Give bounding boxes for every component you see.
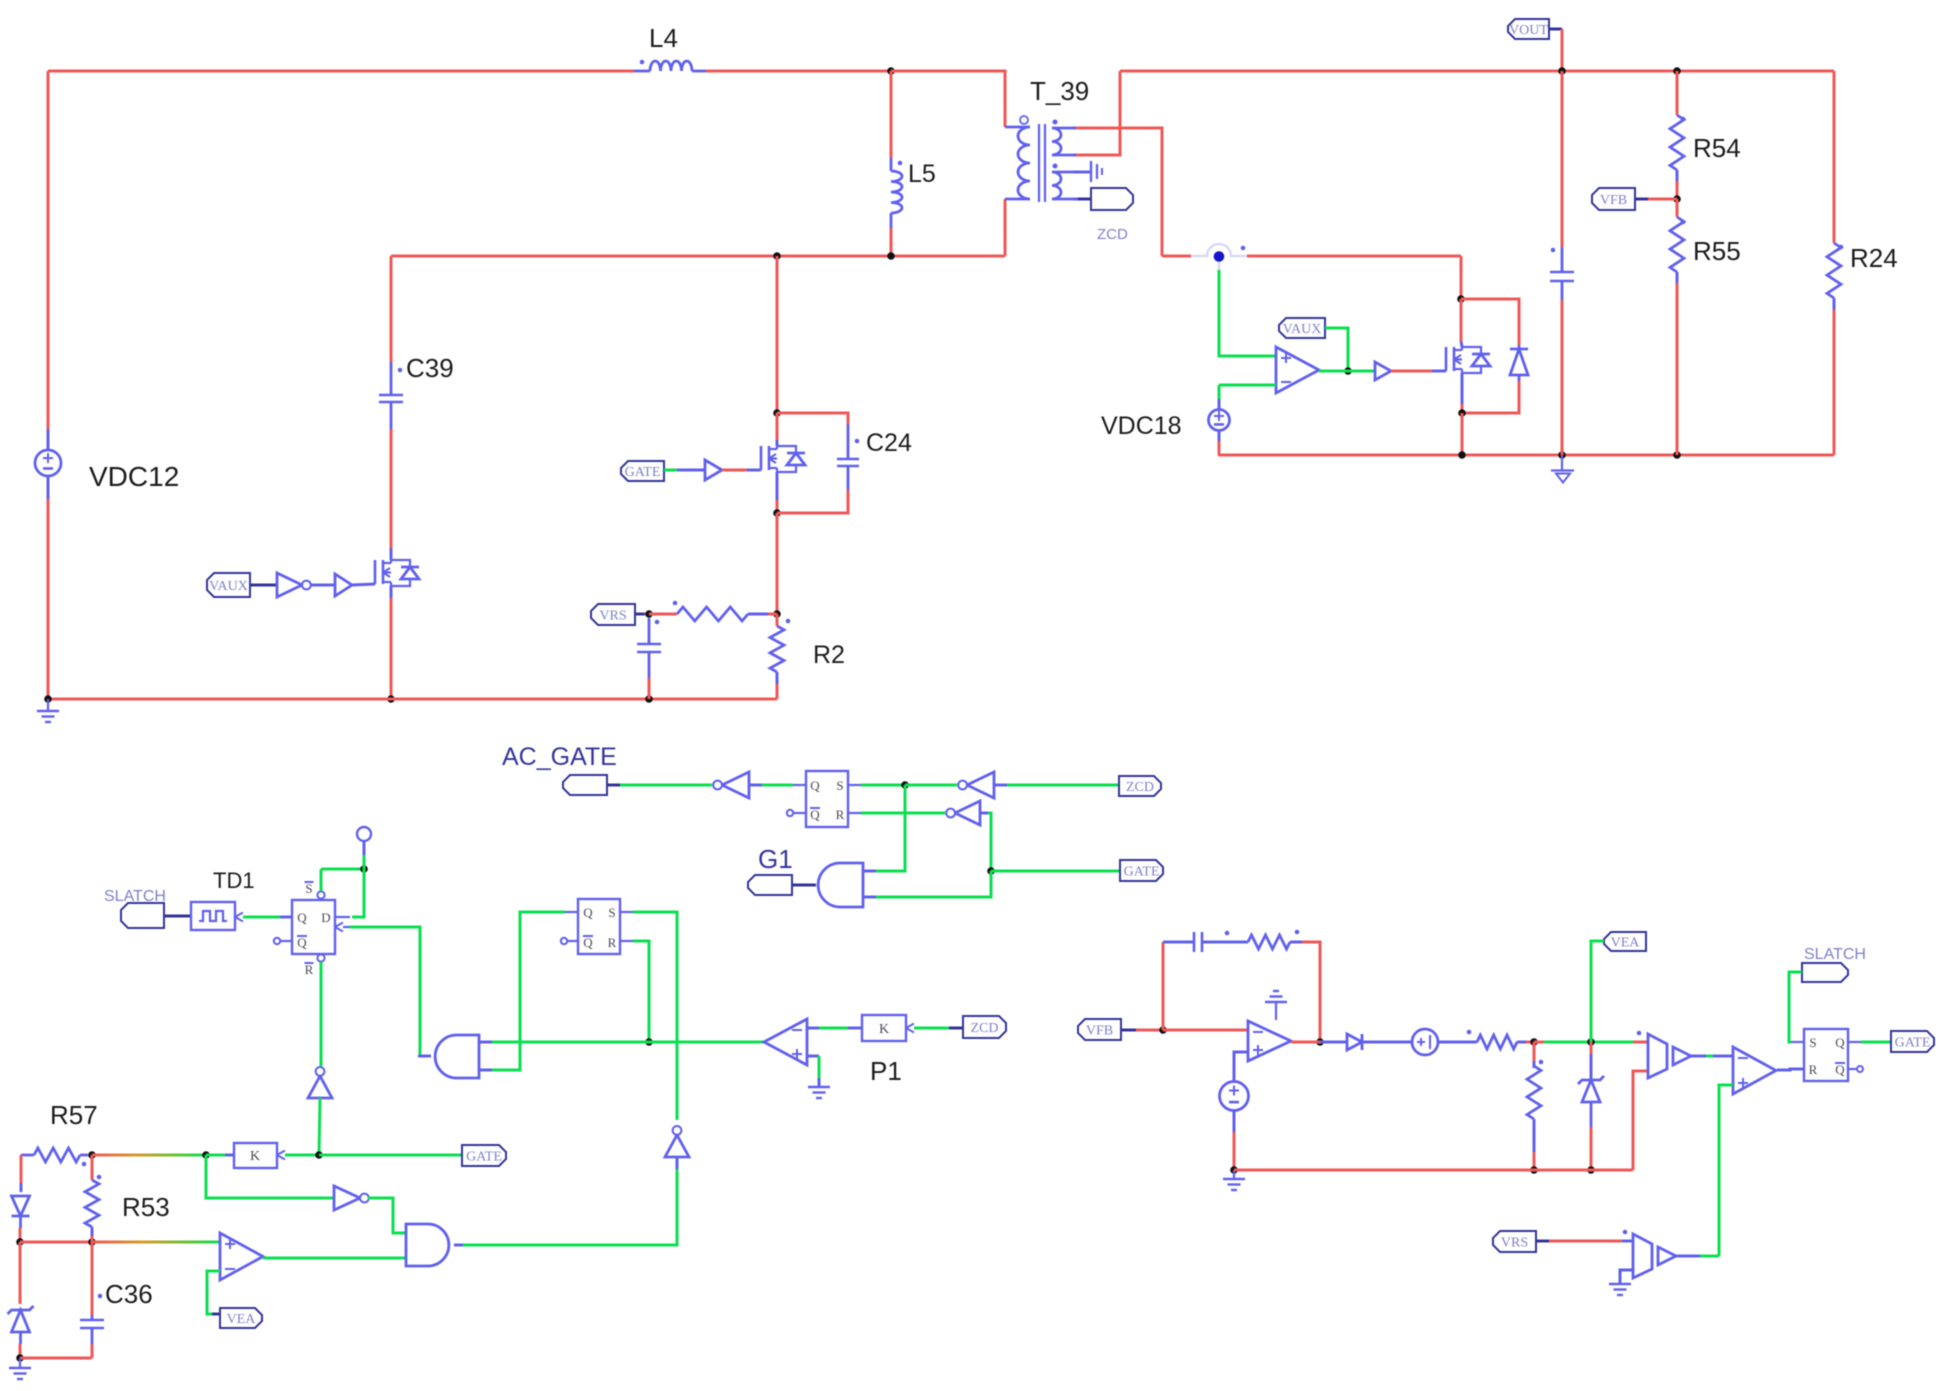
svg-text:R: R: [1809, 1062, 1818, 1077]
resistor R_ramp: [1467, 1030, 1517, 1049]
wire and1 top stub: [863, 870, 876, 873]
svg-text:GATE: GATE: [466, 1150, 502, 1165]
wire vfb red: [1136, 1029, 1163, 1032]
label P1: [870, 1056, 902, 1086]
wire fb right red: [1302, 942, 1320, 1042]
wire vref bot blue: [1233, 1110, 1236, 1132]
wire S down to and: [876, 785, 905, 871]
wire r53 bot: [91, 1236, 94, 1242]
wire R green: [861, 812, 945, 815]
wire d1 bottom: [19, 1228, 22, 1242]
wire top bus left: [48, 70, 634, 73]
junction R57 right: [88, 1151, 96, 1159]
wire vrs out blue: [1676, 1255, 1700, 1258]
wire vref bot red: [1233, 1132, 1236, 1170]
net label VOUT: [1508, 19, 1549, 39]
wire Q3 drain stub: [1461, 341, 1462, 347]
wire ea to diode: [1320, 1041, 1347, 1044]
inverter U_INV_UP2: [665, 1126, 689, 1157]
ground EA top: [1265, 991, 1287, 1020]
junction mid bus M2: [773, 252, 781, 260]
svg-text:VAUX: VAUX: [209, 579, 248, 594]
gain block K1: [862, 1015, 914, 1041]
svg-text:R57: R57: [50, 1100, 98, 1130]
wire pwm out green: [1706, 1055, 1713, 1058]
wire sec1 bottom: [1073, 154, 1076, 157]
wire c_rc bottom: [648, 678, 651, 699]
label L4: [649, 23, 678, 53]
resistor R2: [770, 619, 790, 672]
wire z2 bot: [1590, 1127, 1593, 1170]
net label VAUX right: [1279, 318, 1325, 338]
svg-text:C36: C36: [105, 1279, 153, 1309]
junction vrs rc: [645, 610, 653, 618]
wire c36 bot: [91, 1344, 94, 1358]
zener D6: [1578, 1076, 1604, 1127]
wire res stub: [1517, 1041, 1526, 1044]
comparator U_VRS: [1633, 1234, 1652, 1278]
wire inv5 out: [368, 1198, 406, 1233]
label VDC18: [1101, 412, 1182, 440]
wire a3 out stub: [418, 1055, 431, 1058]
junction rsh gnd: [1530, 1166, 1538, 1174]
svg-text:VAUX: VAUX: [1283, 322, 1322, 337]
wire R24 to bus: [1833, 310, 1836, 455]
wire inv ac in: [749, 784, 762, 787]
wire p1 minus stub: [807, 1027, 819, 1030]
wire ea plus: [1234, 1052, 1248, 1081]
wire vrs stub: [635, 613, 645, 616]
wire diode D2 bottom: [1462, 381, 1519, 413]
wire cmp2 plus green: [1719, 1085, 1733, 1256]
wire gate down to and: [876, 871, 991, 897]
wire Cout bottom: [1561, 300, 1564, 455]
junction p1 line: [645, 1038, 653, 1046]
junction S node: [901, 781, 909, 789]
wire ea out: [1291, 1041, 1320, 1044]
ground VRS comp: [1609, 1284, 1631, 1295]
wire k1 navy: [949, 1027, 963, 1030]
wire lr bus: [1234, 1169, 1633, 1172]
wire top bus right: [1120, 70, 1834, 73]
net label G1 capsule: [748, 875, 792, 895]
wire vrs red2: [1549, 1240, 1622, 1243]
net label VFB top: [1592, 188, 1635, 210]
junction ramp node: [1530, 1038, 1538, 1046]
wire vdc18 to bus: [1218, 441, 1221, 455]
wire r57 left red: [20, 1155, 23, 1183]
transistor M2 (main switch): [761, 446, 805, 472]
svg-text:R: R: [608, 935, 617, 950]
wire to ZCD label: [1078, 198, 1091, 201]
wire k2 down: [206, 1155, 334, 1198]
ground output: [1551, 455, 1574, 483]
wire ramp to vea b: [1544, 1041, 1633, 1044]
label R55: [1693, 236, 1741, 266]
wire ff1 clk green: [350, 927, 420, 1056]
net label SLATCH left capsule: [121, 903, 164, 928]
svg-text:P1: P1: [870, 1056, 902, 1086]
svg-text:VDC18: VDC18: [1101, 412, 1182, 440]
wire and1 bot stub: [863, 896, 876, 899]
wire R2 bottom stub: [776, 672, 779, 684]
wire k2 in green: [285, 1154, 319, 1157]
wire p1 plus blue: [818, 1078, 821, 1087]
wire vea to comp: [1633, 1041, 1648, 1044]
label L5: [908, 160, 936, 188]
wire a3 top stub: [479, 1041, 492, 1044]
label R2: [813, 641, 845, 669]
wire M2 source stub: [776, 472, 779, 500]
wire c36 top: [91, 1242, 94, 1315]
wire ramp to vea a: [1534, 1041, 1544, 1044]
net label ZCD p1: [963, 1016, 1006, 1038]
wire a3 bot stub: [479, 1069, 492, 1072]
wire rsh bot red: [1533, 1152, 1536, 1170]
net label VEA top: [1604, 932, 1646, 951]
wire C24 top: [777, 413, 848, 424]
capacitor Cout: [1550, 247, 1574, 300]
wire rc res right red: [768, 613, 777, 616]
wire a4 out stub: [454, 1244, 463, 1247]
capacitor C24: [837, 424, 859, 490]
junction Q3 source: [1458, 409, 1466, 417]
wire ff1 D green: [352, 869, 364, 917]
wire vdc18 corner: [1218, 454, 1219, 457]
junction vout bus: [1558, 67, 1566, 75]
label C36: [105, 1279, 153, 1309]
wire z2 top red: [1590, 1042, 1593, 1054]
wire gate label green: [991, 870, 1120, 873]
wire diode D2 top: [1461, 299, 1519, 345]
wire slatch to td: [164, 915, 191, 918]
wire C39 top: [390, 256, 393, 362]
svg-text:GATE: GATE: [1895, 1036, 1931, 1051]
svg-text:R53: R53: [122, 1192, 170, 1222]
wire r53 bot stub: [91, 1227, 94, 1236]
wire vfb stub: [1121, 1029, 1136, 1032]
junction VAUX out: [1344, 367, 1352, 375]
wire k2 out blue: [225, 1154, 234, 1157]
wire M2 drain stub: [776, 440, 779, 446]
wire ff2 s green: [633, 912, 677, 1120]
wire M1 source: [390, 598, 393, 699]
wire ff1 rbar green: [320, 962, 323, 1066]
voltage source VDC12: [35, 450, 61, 476]
net label GATE mid: [1120, 860, 1163, 881]
svg-text:VRS: VRS: [599, 609, 626, 624]
wire R55 top: [1676, 199, 1679, 217]
wire p1 plus stub: [807, 1055, 819, 1058]
wire R54 bottom stub: [1676, 170, 1679, 181]
op-amp U_CMP1: [220, 1233, 263, 1280]
wire fb up: [1162, 942, 1165, 1030]
marker vrs comp: [1623, 1230, 1628, 1235]
op-amp U_VAUX: [1276, 347, 1319, 393]
svg-text:Q: Q: [583, 905, 593, 920]
wire vaux to inv: [250, 584, 277, 587]
svg-text:Q: Q: [583, 935, 593, 950]
wire p1 long line: [492, 1041, 764, 1044]
wire sense green: [1219, 270, 1276, 356]
resistor R55: [1670, 217, 1685, 272]
buffer U_B2: [335, 574, 352, 596]
wire sec side bus a: [1162, 255, 1191, 258]
wire invup2 green: [676, 1157, 679, 1169]
wire mid link: [20, 1241, 92, 1244]
svg-text:C24: C24: [866, 429, 912, 457]
wire vout down: [1561, 29, 1564, 71]
resistor R_fb: [1248, 930, 1299, 949]
wire cmp minus navy: [212, 1313, 220, 1316]
junction bottom bus M1: [387, 695, 395, 703]
svg-text:VOUT: VOUT: [1509, 23, 1548, 38]
label T_39: [1030, 76, 1089, 106]
wire S green: [861, 784, 905, 787]
junction M2 drain: [773, 409, 781, 417]
wire rsh bot blue: [1533, 1119, 1536, 1152]
svg-text:ZCD: ZCD: [1097, 226, 1128, 243]
net label ZCD transformer: [1091, 188, 1133, 210]
wire Cout top: [1561, 71, 1564, 247]
svg-text:R24: R24: [1850, 243, 1898, 273]
label R53: [122, 1192, 170, 1222]
wire k2 out green: [206, 1154, 225, 1157]
wire buf to M1 gate: [352, 584, 375, 585]
net label GATE low: [462, 1145, 506, 1166]
node hop arc: [1191, 244, 1247, 270]
junction VFB node: [1673, 195, 1681, 203]
inductor L5: [891, 158, 902, 228]
junction ff1 top: [360, 865, 368, 873]
ground lowleft: [9, 1358, 31, 1379]
junction vref gnd: [1230, 1166, 1238, 1174]
wire top bus to primary: [891, 71, 1005, 127]
wire Q3 drain: [1460, 299, 1463, 341]
wire gate green: [664, 469, 677, 472]
wire inv4 green: [988, 813, 991, 871]
svg-text:T_39: T_39: [1030, 76, 1089, 106]
wire R24 top: [1833, 71, 1836, 243]
wire VFB stub: [1635, 198, 1648, 201]
wire ff2 q green: [492, 912, 565, 1070]
svg-text:Q: Q: [297, 910, 307, 925]
svg-text:ZCD: ZCD: [1126, 780, 1154, 795]
comparator U_CMP2: [1733, 1047, 1776, 1094]
wire td input blue: [280, 916, 292, 919]
inductor L4: [634, 60, 706, 71]
svg-text:R2: R2: [813, 641, 845, 669]
comparator U_PWM: [1637, 1031, 1667, 1078]
svg-text:VEA: VEA: [227, 1312, 257, 1327]
wire isrc to res: [1438, 1041, 1477, 1044]
svg-text:VFB: VFB: [1600, 193, 1627, 208]
wire buf red: [722, 469, 747, 472]
net label ZCD top: [1119, 776, 1161, 796]
net label AC_GATE capsule: [563, 775, 607, 795]
net label SLATCH right capsule: [1802, 963, 1848, 982]
junction gate fb: [315, 1151, 323, 1159]
label VDC12: [89, 461, 179, 492]
wire M1 source stub: [390, 586, 393, 598]
wire p1 plus green: [818, 1056, 821, 1078]
buffer U_B3: [705, 460, 722, 480]
wire comp to VEA amp: [92, 1241, 220, 1244]
junction bus R55: [1673, 451, 1681, 459]
junction bottom bus gnd: [44, 695, 52, 703]
resistor R_sh: [1527, 1060, 1543, 1119]
resistor R24: [1827, 243, 1843, 298]
label TD1: [213, 868, 255, 893]
wire gate blue: [677, 469, 705, 472]
wire vdc18 minus green: [1219, 384, 1276, 387]
wire rc res right blue: [748, 613, 768, 616]
wire R2 top: [776, 614, 779, 626]
junction fb mid: [88, 1238, 96, 1246]
wire c36 bottom link: [20, 1357, 92, 1360]
wire gate fb green: [319, 1154, 462, 1157]
wire ff1 Q green: [243, 916, 280, 919]
voltage source VDC18: [1209, 410, 1230, 431]
and gate A4: [406, 1224, 449, 1266]
resistor R54: [1670, 115, 1685, 170]
transistor Q3 (sync MOSFET): [1446, 347, 1490, 373]
wire vrs blue2: [1622, 1240, 1633, 1243]
wire cmp out green: [263, 1257, 406, 1260]
wire buf blue2: [747, 469, 761, 472]
flip-flop FF0 (AC_GATE latch): [787, 771, 861, 827]
capacitor C36: [80, 1294, 104, 1344]
wire inv4 stub: [980, 812, 988, 815]
label R54: [1693, 133, 1741, 163]
wire buf to gate blue: [1432, 370, 1446, 373]
wire VAUX label green: [1325, 328, 1348, 371]
wire d1 top stub: [20, 1183, 23, 1192]
and gate G1: [818, 863, 863, 907]
inverter U_INV4: [946, 801, 980, 825]
svg-text:VEA: VEA: [1611, 936, 1641, 951]
wire buf to gate red: [1391, 370, 1432, 373]
net label VAUX left: [207, 573, 250, 597]
junction mid bus L5: [887, 252, 895, 260]
svg-text:S: S: [305, 881, 312, 896]
svg-text:C39: C39: [406, 353, 454, 383]
svg-text:SLATCH: SLATCH: [1804, 946, 1866, 963]
junction bus Q3: [1458, 451, 1466, 459]
wire vrs out green: [1700, 1255, 1719, 1258]
wire R55 bottom stub: [1676, 272, 1679, 283]
wire VDC12 top: [47, 71, 50, 429]
inverter U_INV_AC: [713, 772, 749, 798]
svg-text:Q: Q: [1835, 1035, 1845, 1050]
wire M2 to VRS node: [776, 513, 779, 614]
label R57: [50, 1100, 98, 1130]
wire p1 k blue: [848, 1027, 862, 1030]
wire Q3 source: [1461, 404, 1464, 413]
gain block K2: [234, 1143, 285, 1168]
label SLATCH left: [104, 888, 166, 905]
svg-text:GATE: GATE: [625, 465, 661, 480]
wire sec1 to top bus: [1076, 71, 1120, 155]
inverter U_INV5: [334, 1186, 369, 1210]
svg-text:R: R: [305, 962, 314, 977]
net label VRS power: [591, 604, 635, 625]
wire rsh top: [1533, 1042, 1536, 1061]
voltage source Vref: [1220, 1082, 1249, 1111]
wire cmp minus green: [207, 1271, 220, 1314]
wire ff1 top link: [321, 868, 364, 871]
wire sec2 top: [1073, 171, 1091, 174]
wire g1 out: [792, 884, 816, 887]
and gate A3 (clock): [435, 1035, 479, 1078]
wire td input green: [243, 916, 280, 919]
svg-text:VFB: VFB: [1086, 1024, 1113, 1039]
net label VEA left: [220, 1308, 262, 1328]
wire zener top: [19, 1242, 22, 1304]
svg-text:D: D: [321, 910, 330, 925]
wire sec2 bottom: [1073, 198, 1078, 201]
junction ea out: [1316, 1038, 1324, 1046]
wire acgate stub: [607, 784, 620, 787]
wire L4 to node: [706, 70, 891, 73]
wire M2 source: [776, 500, 779, 513]
wire vdc18 stub: [1218, 399, 1221, 409]
buffer U_B1: [1375, 362, 1391, 380]
junction Q3 drain top: [1457, 295, 1465, 303]
junction bottom bus rc: [645, 695, 653, 703]
wire inv3 in stub: [994, 784, 1007, 787]
label C24: [866, 429, 912, 457]
wire inv3 to ZCD: [1007, 784, 1119, 787]
wire pwm out blue2: [1713, 1055, 1733, 1058]
svg-text:G1: G1: [758, 844, 793, 874]
wire r57 to k: [92, 1154, 206, 1157]
svg-text:S: S: [608, 905, 615, 920]
wire R24 bottom stub: [1833, 298, 1836, 310]
diode D3: [12, 1196, 30, 1228]
current source I1: [1412, 1029, 1438, 1055]
wire invup1 in: [319, 1098, 320, 1155]
wire ff1 term blue: [363, 841, 366, 855]
wire ff2 r green: [633, 941, 649, 1042]
wire inv ac green: [762, 784, 793, 787]
transformer T_39: [1005, 116, 1073, 202]
wire lr bus up: [1633, 1071, 1648, 1170]
wire rc res left: [649, 613, 677, 616]
ground main: [37, 699, 59, 722]
label C39: [406, 353, 454, 383]
buffer U_B4: [1673, 1047, 1691, 1065]
net label GATE power: [621, 461, 664, 481]
wire vea green: [1591, 941, 1604, 1042]
label AC_GATE: [502, 743, 617, 771]
junction K2 out: [202, 1151, 210, 1159]
wire vout stub: [1549, 28, 1562, 31]
svg-text:TD1: TD1: [213, 868, 255, 893]
junction z2 gnd: [1587, 1166, 1595, 1174]
wire slatch green: [1789, 972, 1802, 1042]
ground P1: [808, 1087, 830, 1098]
wire vfb to opamp: [1163, 1029, 1248, 1032]
wire R54 to VFB: [1676, 181, 1679, 199]
wire vdc18 green v: [1218, 385, 1221, 399]
op-amp U_EA (error amp): [1248, 1021, 1291, 1061]
junction top bus L5: [887, 67, 895, 75]
wire VDC12 stub top: [47, 429, 50, 450]
wire sec bus down: [1460, 256, 1463, 299]
wire p1 minus green: [819, 1027, 848, 1030]
svg-text:R: R: [836, 807, 845, 822]
